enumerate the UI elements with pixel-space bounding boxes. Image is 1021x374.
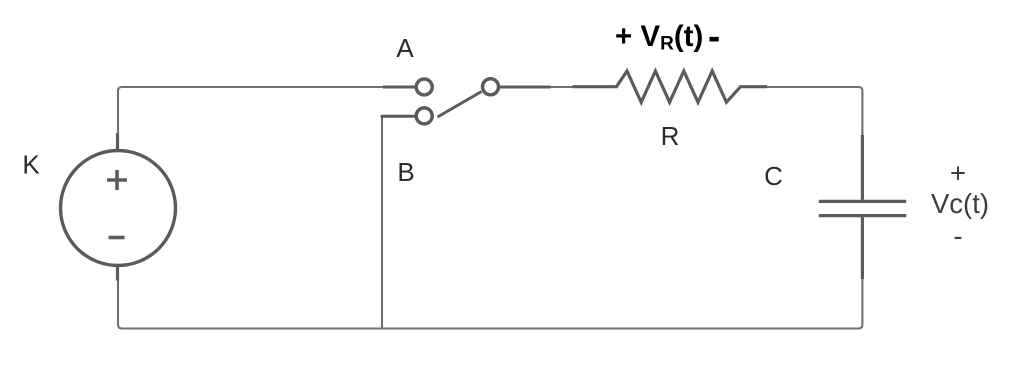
svg-text:A: A (396, 33, 414, 63)
svg-text:+: + (950, 158, 966, 189)
switch terminal B (381, 108, 433, 124)
label VR minus bar (710, 37, 719, 42)
wire switch B down to bottom rail (381, 117, 383, 329)
svg-text:R: R (661, 121, 680, 151)
switch blade (438, 92, 482, 118)
resistor R (573, 71, 768, 102)
label + Vc(t) - (931, 158, 989, 252)
wire top from source to switch A (118, 87, 383, 135)
svg-text:-: - (953, 221, 962, 252)
switch terminal A (383, 79, 432, 95)
svg-text:B: B (397, 157, 414, 187)
voltage source K (61, 133, 176, 281)
wire capacitor bottom to bottom rail (118, 278, 862, 329)
svg-text:+ VR(t): + VR(t) (615, 20, 703, 55)
capacitor C (819, 135, 906, 279)
svg-text:C: C (764, 161, 783, 191)
svg-text:Vc(t): Vc(t) (931, 188, 989, 219)
wire resistor to capacitor (top right corner) (766, 87, 862, 136)
switch pole (483, 79, 551, 95)
wire switch pole to resistor (549, 86, 574, 88)
svg-text:K: K (22, 150, 40, 180)
